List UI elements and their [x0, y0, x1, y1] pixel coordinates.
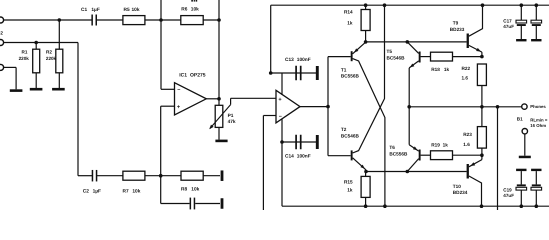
- svg-text:1µF: 1µF: [91, 7, 99, 13]
- svg-text:T2: T2: [341, 127, 347, 132]
- svg-text:R6: R6: [181, 6, 187, 12]
- svg-text:100nF: 100nF: [297, 57, 311, 63]
- svg-text:C14: C14: [285, 154, 294, 160]
- svg-text:1.6: 1.6: [463, 142, 470, 147]
- svg-text:Phones: Phones: [530, 104, 546, 109]
- svg-text:BC556B: BC556B: [341, 74, 360, 79]
- svg-text:47uF: 47uF: [503, 193, 514, 198]
- svg-text:C2: C2: [83, 188, 89, 194]
- svg-text:T10: T10: [453, 184, 461, 189]
- svg-text:1k: 1k: [444, 67, 450, 72]
- svg-text:220k: 220k: [46, 56, 57, 61]
- svg-text:1k: 1k: [347, 20, 353, 25]
- svg-text:R14: R14: [344, 9, 353, 14]
- svg-text:P1: P1: [228, 113, 234, 119]
- svg-text:IC1: IC1: [179, 73, 187, 79]
- svg-text:B2: B2: [0, 31, 3, 36]
- svg-text:R19: R19: [431, 143, 440, 148]
- svg-text:220k: 220k: [19, 56, 30, 61]
- svg-text:T6: T6: [389, 145, 395, 150]
- svg-text:1k: 1k: [443, 143, 449, 148]
- svg-text:BC556B: BC556B: [389, 151, 408, 156]
- svg-text:C19: C19: [503, 187, 512, 192]
- svg-text:B1: B1: [517, 117, 523, 122]
- svg-text:R15: R15: [344, 179, 353, 184]
- svg-text:RLmin =: RLmin =: [530, 117, 548, 122]
- svg-text:T9: T9: [453, 20, 459, 25]
- svg-text:10k: 10k: [132, 188, 140, 194]
- svg-text:R8: R8: [181, 186, 187, 192]
- svg-text:47uF: 47uF: [503, 24, 514, 29]
- svg-text:T1: T1: [341, 67, 347, 72]
- svg-text:OP275: OP275: [190, 73, 206, 79]
- svg-text:C17: C17: [503, 18, 512, 23]
- svg-text:47k: 47k: [228, 119, 236, 125]
- svg-text:1µF: 1µF: [93, 188, 101, 194]
- svg-text:16 Ohm: 16 Ohm: [530, 123, 546, 128]
- svg-text:10k: 10k: [132, 7, 140, 13]
- svg-text:C13: C13: [285, 57, 294, 63]
- svg-text:10k: 10k: [191, 6, 199, 12]
- svg-text:BD234: BD234: [453, 190, 468, 195]
- svg-text:BC546B: BC546B: [341, 134, 360, 139]
- svg-text:R22: R22: [462, 66, 471, 71]
- svg-text:R23: R23: [463, 132, 472, 137]
- svg-text:T5: T5: [387, 49, 393, 54]
- svg-text:R2: R2: [46, 49, 52, 54]
- svg-text:1.6: 1.6: [462, 76, 469, 81]
- svg-text:R5: R5: [124, 7, 130, 13]
- svg-text:1k: 1k: [347, 187, 353, 192]
- svg-text:C1: C1: [81, 7, 87, 13]
- svg-text:−: −: [177, 88, 180, 94]
- svg-text:R18: R18: [431, 67, 440, 72]
- svg-text:BD233: BD233: [450, 27, 465, 32]
- svg-text:R1: R1: [22, 49, 28, 54]
- svg-text:BC546B: BC546B: [387, 55, 406, 60]
- svg-text:R7: R7: [123, 188, 129, 194]
- svg-text:10k: 10k: [191, 186, 199, 192]
- svg-text:100nF: 100nF: [297, 154, 311, 160]
